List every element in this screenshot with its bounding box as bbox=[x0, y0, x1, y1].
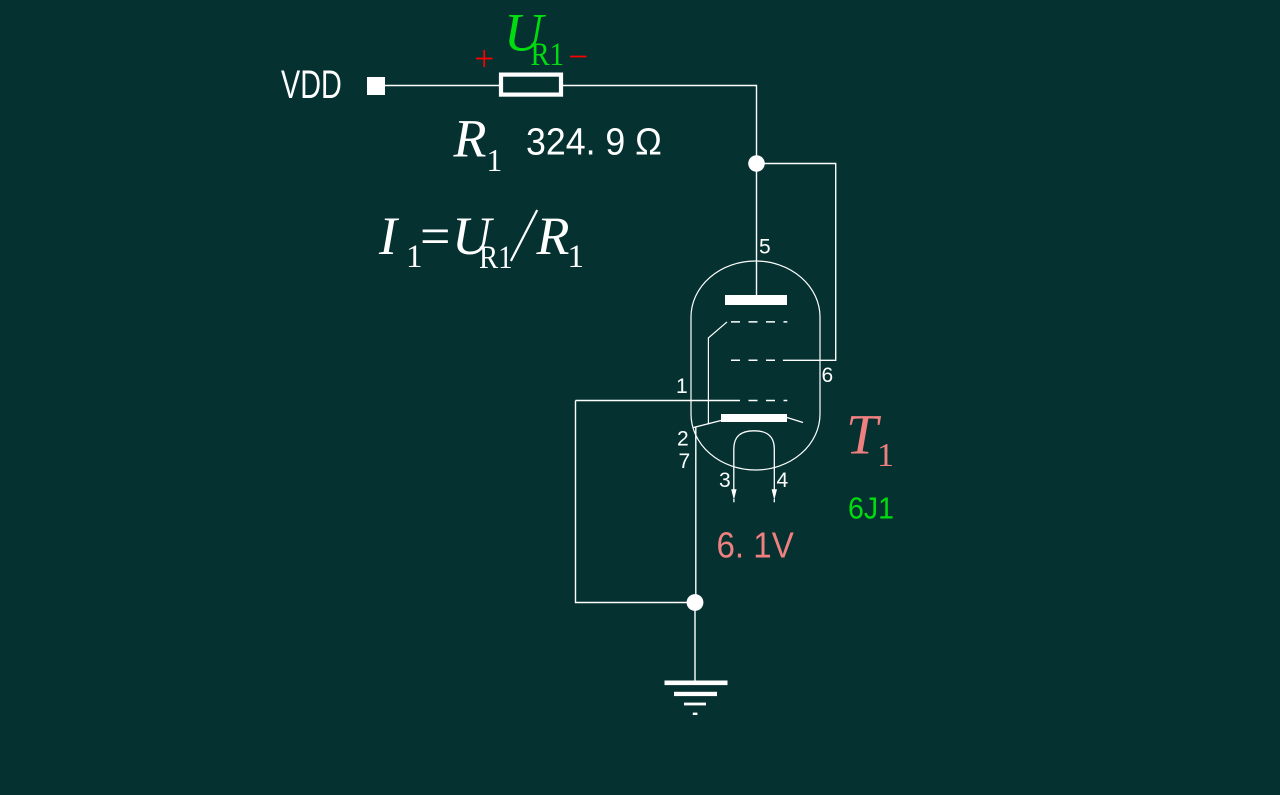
svg-text:=: = bbox=[420, 206, 450, 266]
formula I1=UR1/R1 bbox=[378, 206, 584, 275]
svg-text:7: 7 bbox=[679, 450, 691, 473]
wire cathode to bottom junction bbox=[695, 428, 697, 599]
svg-text:6J1: 6J1 bbox=[848, 491, 894, 525]
svg-text:I: I bbox=[378, 206, 400, 266]
grid g3 internal lead bbox=[708, 322, 727, 425]
wire junction to grid2 (right loop) bbox=[757, 164, 836, 361]
svg-text:324. 9 Ω: 324. 9 Ω bbox=[526, 120, 662, 162]
svg-text:2: 2 bbox=[677, 427, 689, 450]
svg-text:1: 1 bbox=[676, 375, 688, 398]
plate bar bbox=[725, 295, 787, 305]
polarity plus bbox=[476, 50, 493, 67]
junction dot bottom bbox=[687, 594, 704, 611]
junction dot top bbox=[748, 155, 765, 172]
svg-text:R: R bbox=[453, 109, 487, 169]
grid g2 dashes (middle) bbox=[731, 359, 776, 361]
svg-text:1: 1 bbox=[568, 239, 585, 275]
svg-text:1: 1 bbox=[877, 437, 894, 474]
svg-text:6: 6 bbox=[822, 364, 834, 387]
heater filament bbox=[734, 431, 775, 490]
wire VDD square to R1 left bbox=[385, 85, 501, 87]
svg-text:6. 1V: 6. 1V bbox=[717, 526, 794, 566]
polarity minus bbox=[570, 56, 587, 58]
heater arrow pin4 bbox=[772, 489, 777, 500]
svg-text:1: 1 bbox=[487, 143, 503, 178]
grid g1 dashes (bottom) bbox=[731, 400, 787, 402]
svg-text:5: 5 bbox=[759, 236, 771, 259]
wire to ground bbox=[694, 603, 696, 682]
label U_R1 bbox=[504, 3, 564, 73]
svg-text:R: R bbox=[536, 206, 570, 266]
wire plate lead bbox=[756, 164, 758, 296]
heater arrow pin3 bbox=[731, 489, 736, 500]
terminal square VDD bbox=[367, 77, 385, 95]
cathode left lead bbox=[694, 421, 722, 428]
grid g3 dashes (top) bbox=[731, 321, 787, 323]
tube T1 envelope bbox=[691, 261, 820, 470]
svg-text:4: 4 bbox=[777, 469, 789, 492]
cathode right lead bbox=[787, 418, 803, 423]
wire left loop bbox=[576, 401, 688, 603]
cathode bar bbox=[721, 414, 787, 422]
svg-text:R1: R1 bbox=[531, 35, 564, 72]
pin 1 wire bbox=[576, 400, 732, 402]
svg-text:VDD: VDD bbox=[281, 62, 342, 107]
ground symbol bbox=[665, 681, 728, 716]
resistor R1 body bbox=[501, 75, 561, 95]
wire R1 right to corner bbox=[561, 86, 757, 164]
svg-text:R1: R1 bbox=[479, 238, 512, 275]
svg-text:3: 3 bbox=[719, 469, 731, 492]
